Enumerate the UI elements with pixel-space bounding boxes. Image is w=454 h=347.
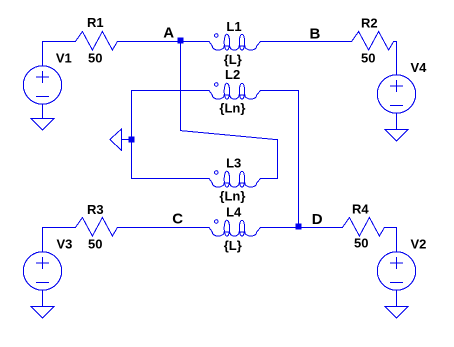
svg-text:L4: L4	[226, 205, 242, 220]
svg-text:B: B	[310, 26, 321, 43]
svg-text:R1: R1	[87, 15, 104, 30]
svg-text:{Ln}: {Ln}	[219, 189, 245, 204]
svg-text:L1: L1	[226, 19, 241, 34]
svg-text:A: A	[163, 25, 174, 42]
svg-text:V1: V1	[56, 51, 72, 66]
svg-text:50: 50	[88, 236, 102, 251]
svg-text:{L}: {L}	[224, 238, 242, 253]
svg-text:R2: R2	[361, 16, 378, 31]
svg-text:{L}: {L}	[224, 52, 242, 67]
svg-text:L2: L2	[225, 67, 240, 82]
svg-text:C: C	[172, 210, 183, 227]
svg-text:V4: V4	[411, 60, 428, 75]
svg-text:V3: V3	[57, 236, 73, 251]
svg-text:50: 50	[88, 51, 102, 66]
svg-text:D: D	[312, 211, 323, 228]
svg-text:50: 50	[354, 236, 368, 251]
svg-text:{Ln}: {Ln}	[219, 101, 245, 116]
svg-text:50: 50	[361, 51, 375, 66]
svg-text:R3: R3	[87, 202, 104, 217]
svg-text:V2: V2	[411, 236, 427, 251]
svg-text:R4: R4	[352, 202, 369, 217]
svg-text:L3: L3	[226, 156, 241, 171]
